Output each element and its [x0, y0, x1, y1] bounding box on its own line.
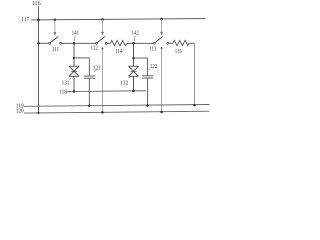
control arrow to switch 113: [160, 19, 163, 36]
svg-text:122: 122: [150, 64, 158, 70]
wire row: resistor114 to node142 to switch113: [127, 42, 153, 44]
node rail117 arrow1: [54, 19, 57, 22]
control arrow to switch 111: [54, 20, 57, 36]
svg-text:121: 121: [93, 66, 101, 72]
svg-text:115: 115: [175, 49, 182, 55]
svg-text:131: 131: [62, 80, 70, 86]
rail 119: [24, 105, 210, 107]
svg-text:112: 112: [91, 46, 98, 52]
wire row: switch111 to node141 to switch112: [62, 42, 96, 44]
svg-text:113: 113: [149, 46, 156, 52]
switch 111: [49, 36, 62, 44]
discharge cell 131 (bowtie): [69, 66, 79, 76]
wire node141 branch down: [73, 43, 75, 66]
node 141 junction: [73, 42, 76, 45]
wire 117 top rail: [31, 19, 205, 20]
resistor 115: [173, 40, 189, 45]
svg-text:141: 141: [72, 31, 79, 37]
node bus x row: [37, 42, 40, 45]
wire row: switch113 to resistor115: [169, 42, 173, 44]
svg-text:114: 114: [115, 49, 122, 55]
resistor 114: [111, 40, 128, 45]
wire cell131 bottom lead: [73, 76, 75, 91]
wire 118: [67, 90, 146, 93]
rail 120: [24, 111, 210, 113]
node cell131 x wire118: [73, 90, 76, 93]
node bus x rail117: [37, 19, 40, 22]
wire connector to capacitor 122: [134, 57, 148, 59]
leader 122: [149, 69, 150, 70]
discharge cell 132 (bowtie): [129, 66, 139, 76]
node 142 junction: [132, 42, 135, 45]
wire 116 vertical bus: [38, 6, 40, 113]
node cap122 x rail119: [146, 104, 149, 107]
node cell132 x wire118: [132, 90, 135, 93]
svg-text:117: 117: [21, 17, 29, 23]
capacitor 121: [84, 58, 95, 106]
node rail117 arrow2: [101, 18, 104, 21]
control arrow to switch 112: [101, 19, 104, 35]
svg-text:120: 120: [16, 108, 24, 114]
capacitor 122: [142, 58, 153, 106]
node bus x rail120: [38, 112, 40, 114]
leader 131: [70, 78, 72, 80]
leader 132: [129, 77, 130, 78]
leader 141: [73, 36, 76, 42]
wire row: switch112 to resistor114: [107, 42, 110, 44]
node cap121 x rail119: [88, 104, 91, 107]
node right column x rail119: [193, 104, 196, 107]
switch 112: [96, 36, 108, 44]
wire right column down: [193, 43, 195, 105]
svg-text:118: 118: [59, 89, 67, 95]
node junction left branch: [73, 57, 75, 59]
wire cell132 bottom lead: [133, 76, 135, 91]
wire row to right corner: [189, 42, 194, 44]
svg-text:111: 111: [52, 47, 59, 53]
wire row left: [39, 42, 49, 44]
wire connector to capacitor 121: [74, 57, 89, 59]
svg-text:132: 132: [120, 80, 128, 86]
node rail117 arrow3: [160, 18, 163, 21]
svg-text:116: 116: [32, 1, 41, 7]
wire drop from switch 112 pivot to rail 120: [102, 47, 104, 49]
node junction right branch: [132, 57, 134, 59]
wire node142 branch down: [133, 43, 135, 66]
switch 113: [153, 36, 168, 44]
node drop113 x rail120: [160, 111, 163, 114]
leader 142: [134, 36, 135, 42]
wire drop from switch 113 pivot to rail 120: [161, 47, 163, 49]
leader 121: [94, 70, 96, 72]
svg-text:142: 142: [131, 31, 138, 37]
node drop112 x rail120: [101, 111, 104, 114]
